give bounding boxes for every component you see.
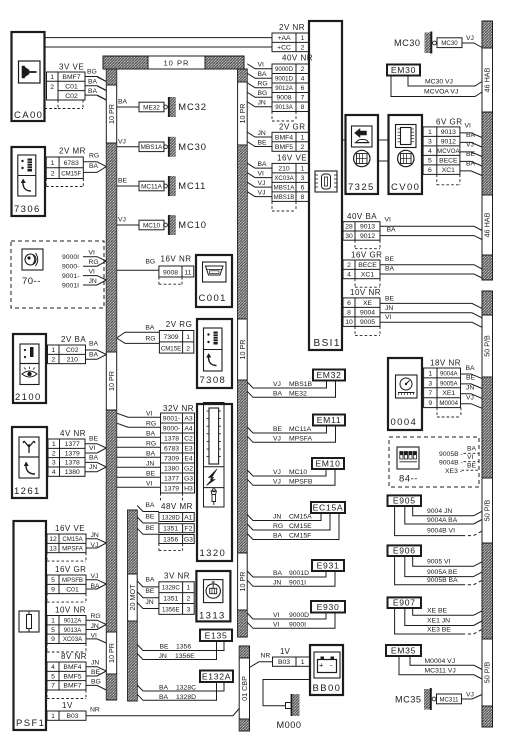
svg-text:2V RG: 2V RG (166, 320, 193, 329)
svg-text:MC10: MC10 (143, 222, 160, 229)
svg-text:BG: BG (258, 90, 268, 97)
svg-text:3: 3 (301, 175, 305, 182)
svg-text:NR: NR (90, 707, 100, 714)
svg-text:1328C: 1328C (162, 585, 181, 592)
svg-text:BA: BA (159, 685, 169, 692)
svg-text:MCVOA: MCVOA (437, 148, 460, 155)
svg-text:BA: BA (466, 161, 476, 168)
svg-text:5: 5 (428, 158, 432, 165)
svg-text:VJ: VJ (118, 217, 126, 224)
svg-text:JN: JN (385, 305, 393, 312)
svg-text:46 HAB: 46 HAB (483, 67, 492, 92)
svg-text:01 CBP: 01 CBP (240, 676, 249, 701)
svg-text:VJ: VJ (258, 180, 266, 187)
svg-text:BA: BA (387, 226, 397, 233)
svg-text:16V GR: 16V GR (55, 565, 86, 574)
svg-text:46 HAB: 46 HAB (483, 212, 492, 237)
svg-text:JN: JN (466, 385, 474, 392)
svg-text:7: 7 (301, 95, 305, 102)
svg-text:9004A: 9004A (440, 370, 459, 377)
svg-text:BMF7: BMF7 (63, 683, 81, 690)
svg-text:3V VE: 3V VE (59, 63, 84, 72)
svg-text:MBS1B: MBS1B (274, 194, 295, 201)
svg-text:EM35: EM35 (391, 646, 416, 656)
svg-text:0004: 0004 (391, 417, 418, 428)
svg-text:50 P/B: 50 P/B (483, 335, 492, 357)
svg-text:1: 1 (51, 713, 55, 720)
svg-text:2: 2 (51, 356, 55, 363)
svg-text:6V GR: 6V GR (436, 117, 463, 126)
svg-text:10 PR: 10 PR (163, 59, 189, 68)
svg-text:10V NR: 10V NR (350, 288, 381, 297)
svg-text:6: 6 (301, 185, 305, 192)
svg-text:MCVOA VJ: MCVOA VJ (424, 89, 458, 96)
svg-text:MC35: MC35 (395, 695, 422, 705)
svg-text:20 MOT: 20 MOT (128, 584, 137, 611)
svg-text:2: 2 (186, 346, 190, 353)
svg-text:BG: BG (145, 259, 155, 266)
svg-text:28: 28 (345, 224, 353, 231)
svg-text:VJ: VJ (118, 138, 126, 145)
svg-text:50 P/B: 50 P/B (483, 662, 492, 684)
svg-text:RG: RG (89, 259, 99, 266)
svg-text:10 PR: 10 PR (238, 572, 247, 592)
svg-text:MC11A: MC11A (141, 183, 163, 190)
svg-text:VI: VI (467, 454, 474, 461)
svg-text:BE: BE (466, 151, 476, 158)
svg-text:1: 1 (186, 334, 190, 341)
svg-text:4V NR: 4V NR (60, 429, 86, 438)
svg-text:9001D: 9001D (289, 570, 309, 577)
svg-text:BA: BA (88, 88, 98, 95)
svg-text:VI: VI (465, 123, 472, 130)
svg-text:2: 2 (301, 144, 305, 151)
svg-text:BA: BA (89, 341, 99, 348)
svg-text:6783: 6783 (164, 445, 179, 452)
svg-text:7325: 7325 (348, 182, 375, 193)
svg-text:F2: F2 (184, 526, 192, 533)
svg-text:+: + (319, 661, 324, 670)
svg-text:16V VE: 16V VE (55, 524, 85, 533)
svg-text:MPSFB: MPSFB (289, 478, 313, 485)
svg-text:3V NR: 3V NR (164, 571, 190, 580)
svg-text:BE: BE (273, 426, 283, 433)
svg-text:MC32: MC32 (178, 101, 207, 112)
svg-text:G3: G3 (184, 536, 193, 543)
svg-text:M0004: M0004 (439, 400, 458, 407)
svg-text:9: 9 (51, 636, 55, 643)
svg-text:9001-: 9001- (163, 415, 180, 422)
svg-text:BA: BA (467, 446, 477, 453)
svg-text:BA: BA (88, 79, 98, 86)
svg-text:1328D: 1328D (162, 514, 181, 521)
svg-text:5: 5 (51, 673, 55, 680)
svg-text:1: 1 (50, 74, 54, 81)
svg-text:CM15F: CM15F (289, 533, 311, 540)
svg-text:9001D: 9001D (275, 76, 294, 83)
svg-text:16V VE: 16V VE (277, 153, 307, 162)
svg-text:9000I: 9000I (289, 621, 306, 628)
svg-text:VI: VI (273, 612, 280, 619)
svg-text:3: 3 (428, 139, 432, 146)
svg-text:1379: 1379 (65, 450, 80, 457)
svg-text:1: 1 (301, 166, 305, 173)
svg-text:2: 2 (50, 84, 54, 91)
svg-text:CA00: CA00 (14, 110, 43, 121)
svg-text:9000D: 9000D (289, 612, 309, 619)
svg-text:1: 1 (51, 618, 55, 625)
svg-text:G3: G3 (184, 475, 193, 482)
svg-text:C001: C001 (199, 293, 227, 304)
svg-text:BA: BA (146, 430, 156, 437)
svg-text:9000I: 9000I (62, 254, 79, 261)
svg-text:MBS1A: MBS1A (274, 185, 296, 192)
svg-text:XE: XE (363, 300, 373, 307)
svg-text:BA: BA (89, 455, 99, 462)
svg-text:ME32: ME32 (143, 104, 160, 111)
svg-text:1: 1 (51, 160, 55, 167)
svg-text:9000-: 9000- (163, 425, 180, 432)
svg-text:XC1: XC1 (442, 167, 455, 174)
svg-text:10V NR: 10V NR (55, 606, 86, 615)
svg-text:2: 2 (52, 450, 56, 457)
svg-text:VJ: VJ (273, 381, 281, 388)
svg-text:CM15A: CM15A (289, 514, 312, 521)
svg-text:9005 VI: 9005 VI (427, 559, 451, 566)
svg-text:MC10: MC10 (178, 219, 207, 230)
svg-text:32V NR: 32V NR (163, 404, 194, 413)
svg-text:BB00: BB00 (313, 683, 342, 694)
svg-text:VJ: VJ (466, 142, 474, 149)
svg-text:9001I: 9001I (62, 282, 79, 289)
svg-text:7309: 7309 (163, 334, 178, 341)
svg-text:2100: 2100 (15, 392, 42, 403)
svg-text:3: 3 (52, 460, 56, 467)
svg-text:BE: BE (145, 588, 155, 595)
svg-text:3: 3 (187, 606, 191, 613)
svg-text:XE3 BE: XE3 BE (427, 627, 451, 634)
svg-text:10 PR: 10 PR (107, 371, 116, 391)
svg-text:1: 1 (428, 370, 432, 377)
svg-text:BG: BG (91, 679, 101, 686)
svg-text:MPSFA: MPSFA (289, 435, 313, 442)
svg-text:9012: 9012 (441, 139, 456, 146)
svg-text:BMF5: BMF5 (63, 673, 81, 680)
svg-text:48V MR: 48V MR (161, 502, 193, 511)
svg-text:MC311 VJ: MC311 VJ (425, 668, 456, 675)
svg-text:9013: 9013 (360, 224, 375, 231)
svg-text:1328C: 1328C (176, 685, 196, 692)
svg-text:BE: BE (89, 436, 99, 443)
svg-text:10: 10 (345, 319, 353, 326)
svg-text:210: 210 (278, 166, 290, 173)
svg-text:B03: B03 (278, 659, 290, 666)
svg-text:2V BA: 2V BA (61, 335, 86, 344)
svg-text:1: 1 (52, 441, 56, 448)
svg-text:8: 8 (301, 194, 305, 201)
svg-text:BMF4: BMF4 (275, 134, 293, 141)
svg-text:9008: 9008 (163, 269, 178, 276)
svg-text:9005B -: 9005B - (439, 451, 463, 458)
svg-text:MBS1A: MBS1A (141, 144, 163, 151)
svg-text:1378: 1378 (164, 435, 179, 442)
svg-text:1380: 1380 (164, 465, 179, 472)
svg-text:A1: A1 (184, 514, 193, 521)
svg-text:MC10: MC10 (289, 469, 307, 476)
svg-text:E905: E905 (393, 496, 416, 506)
svg-text:1: 1 (301, 35, 305, 42)
svg-text:6: 6 (428, 167, 432, 174)
svg-text:JN: JN (89, 278, 97, 285)
svg-text:2: 2 (301, 66, 305, 73)
svg-text:CM15E: CM15E (161, 346, 181, 353)
svg-text:18V NR: 18V NR (430, 359, 461, 368)
svg-text:1313: 1313 (199, 611, 226, 622)
svg-text:BE: BE (145, 514, 155, 521)
svg-text:9005B BA: 9005B BA (427, 577, 458, 584)
svg-text:1: 1 (187, 585, 191, 592)
svg-text:MBS1B: MBS1B (289, 381, 313, 388)
svg-text:XE3 -: XE3 - (445, 468, 462, 475)
svg-text:MC11A: MC11A (289, 426, 312, 433)
svg-text:E4: E4 (184, 455, 193, 462)
svg-text:9005A BE: 9005A BE (427, 569, 458, 576)
svg-text:VI: VI (258, 170, 265, 177)
svg-text:BA: BA (273, 570, 283, 577)
svg-text:JN: JN (89, 464, 97, 471)
svg-text:7: 7 (428, 390, 432, 397)
svg-text:2: 2 (51, 171, 55, 178)
svg-text:VJ: VJ (91, 573, 99, 580)
svg-text:9012: 9012 (360, 233, 375, 240)
svg-text:9012A: 9012A (64, 618, 83, 625)
svg-text:EM11: EM11 (317, 415, 342, 425)
svg-text:1378: 1378 (65, 460, 80, 467)
svg-text:XC03A: XC03A (63, 636, 83, 643)
svg-text:C02: C02 (66, 347, 79, 354)
svg-text:BA: BA (258, 71, 268, 78)
svg-text:2: 2 (301, 44, 305, 51)
svg-text:BECE: BECE (358, 262, 377, 269)
svg-text:1328D: 1328D (176, 694, 196, 701)
svg-text:CM15F: CM15F (61, 171, 81, 178)
svg-text:E3: E3 (184, 445, 193, 452)
svg-text:2: 2 (187, 595, 191, 602)
svg-text:C01: C01 (65, 84, 78, 91)
svg-text:BA: BA (89, 163, 99, 170)
svg-text:BE: BE (385, 295, 395, 302)
svg-text:M0004 VJ: M0004 VJ (425, 658, 456, 665)
svg-text:EM32: EM32 (316, 370, 341, 380)
svg-text:BA: BA (273, 390, 283, 397)
svg-text:NR: NR (261, 653, 271, 660)
svg-text:JN: JN (91, 660, 99, 667)
svg-text:BMF5: BMF5 (275, 144, 293, 151)
svg-text:2: 2 (347, 262, 351, 269)
svg-text:7: 7 (51, 683, 55, 690)
svg-text:BE: BE (466, 375, 476, 382)
svg-text:VJ: VJ (466, 395, 474, 402)
svg-text:BE: BE (258, 139, 268, 146)
svg-text:ME32: ME32 (289, 390, 307, 397)
svg-text:10 PR: 10 PR (107, 643, 116, 663)
svg-text:BECE: BECE (439, 158, 458, 165)
svg-text:1V: 1V (280, 647, 290, 656)
svg-text:9001I: 9001I (289, 579, 306, 586)
svg-text:BE: BE (385, 256, 395, 263)
svg-text:E132A: E132A (202, 671, 231, 681)
svg-text:1V: 1V (62, 701, 73, 710)
svg-text:JN: JN (273, 579, 281, 586)
svg-text:12: 12 (49, 536, 57, 543)
svg-text:210: 210 (67, 356, 79, 363)
svg-text:JN: JN (145, 599, 153, 606)
svg-text:E930: E930 (317, 602, 340, 612)
svg-text:H3: H3 (184, 485, 193, 492)
svg-text:BMF7: BMF7 (62, 74, 80, 81)
svg-text:RG: RG (146, 440, 156, 447)
svg-text:E135: E135 (205, 630, 228, 640)
svg-text:JN: JN (258, 100, 266, 107)
svg-text:BMF4: BMF4 (63, 664, 81, 671)
svg-text:BA: BA (145, 576, 155, 583)
svg-text:9000-: 9000- (62, 264, 79, 271)
svg-text:40V NR: 40V NR (282, 54, 313, 63)
svg-text:VJ: VJ (273, 478, 281, 485)
svg-text:16V NR: 16V NR (161, 254, 192, 263)
svg-text:10 PR: 10 PR (238, 340, 247, 360)
svg-text:CM15A: CM15A (62, 536, 83, 543)
svg-text:BA: BA (159, 694, 169, 701)
svg-text:9004A BA: 9004A BA (427, 517, 458, 524)
svg-text:B03: B03 (66, 713, 78, 720)
svg-text:XE BE: XE BE (427, 608, 447, 615)
svg-text:9004: 9004 (360, 310, 375, 317)
svg-text:BA: BA (258, 161, 268, 168)
svg-text:MC11: MC11 (178, 180, 206, 191)
svg-text:1380: 1380 (65, 469, 80, 476)
svg-text:XE1: XE1 (442, 390, 455, 397)
svg-text:RG: RG (258, 81, 268, 88)
svg-text:1356E: 1356E (175, 653, 195, 660)
svg-text:C01: C01 (66, 586, 79, 593)
svg-text:BE: BE (160, 644, 170, 651)
svg-text:9: 9 (428, 400, 432, 407)
svg-text:MC30: MC30 (178, 141, 207, 152)
svg-text:4: 4 (428, 148, 432, 155)
svg-text:4: 4 (51, 664, 55, 671)
svg-text:10 PR: 10 PR (107, 104, 116, 124)
svg-text:JN: JN (159, 653, 167, 660)
svg-text:C2: C2 (184, 435, 193, 442)
svg-text:M000: M000 (277, 720, 302, 730)
svg-text:5: 5 (51, 627, 55, 634)
svg-text:1379: 1379 (164, 485, 179, 492)
svg-text:MC30: MC30 (394, 38, 421, 48)
svg-text:XC03A: XC03A (274, 175, 294, 182)
svg-text:9004B VI: 9004B VI (427, 528, 455, 535)
svg-text:E907: E907 (393, 598, 416, 608)
svg-text:5: 5 (51, 577, 55, 584)
svg-text:EM10: EM10 (315, 459, 340, 469)
svg-text:XC1: XC1 (361, 271, 374, 278)
svg-text:VJ: VJ (466, 35, 474, 42)
svg-text:A3: A3 (184, 415, 193, 422)
svg-text:RG: RG (91, 613, 101, 620)
svg-text:VJ: VJ (273, 435, 281, 442)
svg-text:BG: BG (87, 69, 97, 76)
svg-text:E906: E906 (393, 546, 416, 556)
svg-text:7309: 7309 (164, 455, 179, 462)
svg-text:MC30 VJ: MC30 VJ (425, 79, 453, 86)
svg-text:1320: 1320 (200, 548, 227, 559)
svg-text:JN: JN (273, 514, 281, 521)
svg-text:1356: 1356 (176, 644, 191, 651)
svg-text:1: 1 (301, 659, 305, 666)
svg-text:RG: RG (146, 420, 156, 427)
svg-text:MC311: MC311 (440, 697, 460, 703)
svg-text:CV00: CV00 (391, 182, 420, 193)
svg-text:A4: A4 (184, 425, 193, 432)
svg-text:2V GR: 2V GR (279, 123, 306, 132)
svg-text:BA: BA (466, 132, 476, 139)
svg-text:BA: BA (145, 502, 155, 509)
svg-text:1377: 1377 (65, 441, 80, 448)
svg-text:+CC: +CC (277, 44, 291, 51)
svg-text:9: 9 (51, 586, 55, 593)
svg-text:MPSFA: MPSFA (62, 545, 84, 552)
svg-text:9013A: 9013A (64, 627, 83, 634)
svg-text:JN: JN (146, 460, 154, 467)
svg-text:10 PR: 10 PR (238, 104, 247, 124)
svg-text:RG: RG (273, 523, 283, 530)
svg-text:9000D: 9000D (275, 66, 294, 73)
svg-text:BA: BA (89, 352, 99, 359)
svg-text:C02: C02 (65, 93, 78, 100)
svg-text:9013A: 9013A (275, 104, 294, 111)
svg-text:8: 8 (301, 104, 305, 111)
svg-text:VI: VI (89, 250, 96, 257)
svg-text:MC30: MC30 (441, 40, 458, 47)
svg-text:9004B -: 9004B - (439, 460, 463, 467)
svg-text:7308: 7308 (200, 375, 227, 386)
svg-text:9001-: 9001- (62, 273, 79, 280)
svg-text:9012A: 9012A (275, 85, 294, 92)
svg-text:VJ: VJ (273, 469, 281, 476)
svg-text:11: 11 (184, 269, 191, 276)
svg-text:6: 6 (301, 85, 305, 92)
svg-text:1261: 1261 (14, 486, 41, 497)
svg-text:9013: 9013 (441, 129, 456, 136)
svg-text:VJ: VJ (466, 692, 474, 699)
svg-text:8: 8 (347, 310, 351, 317)
svg-text:9005A: 9005A (440, 380, 459, 387)
svg-text:PSF1: PSF1 (16, 718, 45, 729)
svg-text:9004 JN: 9004 JN (427, 508, 452, 515)
svg-text:EM30: EM30 (391, 65, 416, 75)
svg-text:16V GR: 16V GR (351, 250, 382, 259)
svg-text:4: 4 (52, 469, 56, 476)
svg-text:70--: 70-- (22, 276, 41, 287)
svg-text:1: 1 (301, 134, 305, 141)
svg-text:50 P/B: 50 P/B (483, 500, 492, 522)
svg-text:JN: JN (91, 532, 99, 539)
svg-text:1351: 1351 (163, 595, 178, 602)
svg-text:RG: RG (89, 153, 99, 160)
svg-text:6: 6 (347, 300, 351, 307)
svg-text:84--: 84-- (399, 474, 418, 485)
svg-text:6783: 6783 (64, 160, 79, 167)
